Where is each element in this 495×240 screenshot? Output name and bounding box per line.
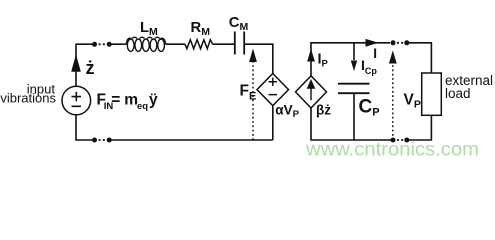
svg-text:CM: CM bbox=[229, 15, 249, 33]
svg-text:βż: βż bbox=[316, 103, 331, 118]
wire capacitor to right corner and down bbox=[245, 44, 273, 74]
svg-text:RM: RM bbox=[191, 20, 211, 38]
node dot bottom-left A bbox=[92, 138, 97, 143]
capacitor CP bbox=[338, 84, 370, 94]
voltage arrow VP dashed bbox=[389, 51, 397, 141]
current arrow ICp bbox=[351, 61, 357, 72]
node dot bottom-left B bbox=[107, 138, 112, 143]
wire dashed break top-left bbox=[99, 43, 106, 45]
wire circuit2 top-left corner bbox=[311, 43, 354, 76]
wire dashed break top-right bbox=[397, 42, 404, 44]
svg-text:αVP: αVP bbox=[275, 103, 299, 121]
current arrow I on top wire bbox=[366, 39, 379, 47]
wire dashed break bottom-right bbox=[397, 139, 404, 141]
node dot bottom-right B bbox=[404, 138, 409, 143]
wire CP branch top bbox=[353, 43, 355, 60]
node dot top-right B bbox=[404, 40, 409, 45]
wire top rail CP to arrow bbox=[354, 42, 390, 44]
node dot top-right A bbox=[391, 40, 396, 45]
svg-text:IP: IP bbox=[318, 52, 329, 70]
svg-text:load: load bbox=[445, 86, 471, 101]
svg-text:CP: CP bbox=[359, 97, 380, 119]
node dot top-left B bbox=[107, 42, 112, 47]
resistor RM bbox=[185, 40, 213, 49]
svg-text:LM: LM bbox=[140, 20, 158, 38]
current arrow IP bbox=[307, 49, 315, 62]
inductor LM bbox=[126, 37, 165, 51]
wire bottom-left corner up to source bbox=[76, 115, 92, 140]
wire top-right corner down to load bbox=[409, 43, 431, 73]
source V1 input vibrations circle bbox=[62, 86, 91, 115]
node dot bottom-right A bbox=[391, 138, 396, 143]
svg-text:vibrations: vibrations bbox=[0, 91, 56, 106]
wire CP to bottom rail bbox=[354, 93, 393, 140]
wire diamond U2 to bottom rail bbox=[311, 108, 354, 140]
dependent source U2 beta z-dot diamond bbox=[296, 76, 327, 108]
node dot top-left A bbox=[92, 42, 97, 47]
wire load to bottom rail bbox=[409, 115, 431, 140]
dependent source U1 alphaVp diamond bbox=[257, 74, 289, 106]
svg-text:www.cntronics.com: www.cntronics.com bbox=[305, 139, 479, 161]
current arrow z-dot bbox=[72, 57, 80, 72]
wire dashed break bottom-left bbox=[99, 139, 106, 141]
wire inductor to resistor bbox=[166, 43, 185, 45]
wire resistor to capacitor bbox=[213, 43, 234, 45]
force arrow FE dashed bbox=[249, 49, 257, 141]
svg-text:VP: VP bbox=[404, 92, 421, 111]
svg-text:ż: ż bbox=[86, 58, 95, 78]
resistor external load box bbox=[422, 73, 442, 115]
wire left vertical and top-left corner bbox=[76, 44, 92, 86]
svg-text:FE: FE bbox=[240, 83, 257, 103]
wire to inductor bbox=[111, 43, 127, 45]
svg-text:I: I bbox=[373, 46, 377, 61]
capacitor CM bbox=[235, 32, 244, 55]
svg-text:FIN=meqÿ: FIN=meqÿ bbox=[97, 92, 159, 113]
wire diamond U1 to bottom bbox=[272, 106, 274, 140]
wire bottom rail left circuit bbox=[111, 139, 273, 141]
